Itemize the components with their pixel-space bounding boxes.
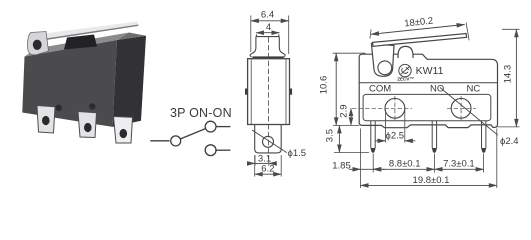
switch body top face [25,33,130,57]
dim 14.3 bottom extension [498,126,520,128]
switch body front face [22,40,117,127]
switch body right side face [113,36,147,127]
dim line 6.2 [255,173,282,175]
dim line 10.6 [335,53,337,125]
center dashed line [268,37,270,159]
NC hole centerlines [447,107,476,109]
svg-text:1.85: 1.85 [332,160,351,171]
svg-text:KW11: KW11 [416,65,444,77]
svg-text:4: 4 [266,22,271,33]
svg-text:8.8±0.1: 8.8±0.1 [389,159,421,170]
lever arm bar [373,34,467,47]
bottom contact lead wire [216,149,230,151]
terminal 3 [114,117,133,144]
svg-text:ϕ2.4: ϕ2.4 [500,136,519,147]
hole in terminal tab [263,136,274,147]
svg-text:ZECV™: ZECV™ [397,77,414,83]
pivot hole [33,40,42,50]
common pole circle [171,136,181,146]
plunger flange base band [252,56,283,58]
svg-text:7.3±0.1: 7.3±0.1 [443,159,475,170]
pivot circle [378,61,392,75]
dim line 3.5 [338,125,340,152]
extension line pin tip level [334,152,369,154]
svg-text:14.3: 14.3 [502,65,513,84]
common lead wire [150,140,169,142]
dim 14.3 top extension [502,28,520,30]
svg-text:NC: NC [467,84,481,95]
dim line 8.8 [373,168,434,170]
dome of plunger [398,46,413,58]
molded dot left on front face [55,104,62,111]
extension line bottom left [333,124,359,126]
lever arm strip [44,22,139,39]
svg-text:ϕ1.5: ϕ1.5 [288,148,307,159]
extension lines 6.4 [250,16,252,53]
pin 1 COM [371,121,375,153]
top contact lead wire [216,126,230,128]
svg-text:3P ON-ON: 3P ON-ON [170,106,232,120]
dim 1.85 outside arrow [349,168,361,170]
logo glyph [401,67,410,75]
left mounting tab [245,89,248,95]
pin 3 NC [482,121,486,153]
terminal 1 [37,106,55,134]
extension lines 3.1 [254,155,256,166]
terminal 2 [78,112,97,138]
molded dot right on front face [89,103,95,109]
extension line left of 18 dim [370,30,371,39]
leader line phi 1.5 [252,130,287,153]
lever pivot tongue [371,44,394,77]
internal horizontal line [359,82,497,84]
extension line top 10.6 [333,52,366,54]
svg-text:COM: COM [369,84,391,95]
dim line phi 2.5 outside arrows [375,140,386,142]
svg-text:19.8±0.1: 19.8±0.1 [413,175,450,186]
dim line 4 [256,32,280,34]
svg-text:6.4: 6.4 [261,10,274,21]
dim line 3.1 with outside arrows [248,162,256,164]
NC hole [451,98,471,118]
dim line 7.3 [435,168,484,170]
dim line 14.3 [515,29,517,127]
switch body top-right facet [117,33,146,41]
COM hole [385,98,405,118]
dim line 2.9 [350,108,352,125]
svg-text:2.9: 2.9 [339,104,350,117]
bottom dims extension lines [360,129,362,189]
brand logo circle [399,64,411,76]
inner wall line right [285,59,287,125]
diagonal leader phi 2.4 [440,88,498,136]
extension line right of 18 dim [466,23,469,41]
dim line 19.8 [361,184,497,186]
pin 2 NO [432,121,436,153]
dim line 6.4 [251,20,289,22]
svg-text:10.6: 10.6 [319,76,330,95]
svg-text:ϕ2.5: ϕ2.5 [386,131,405,142]
switch body outline [359,54,497,128]
svg-text:3.5: 3.5 [324,129,335,142]
top contact circle [205,121,216,132]
lever pivot end piece [28,32,49,55]
extension lines 6.2 [254,155,256,177]
dim phi 2.5 extension lines [385,110,387,143]
moving contact wire [181,129,206,139]
inner wall line left [250,59,252,125]
inner terminal block rect [363,94,491,120]
bottom terminal tab [255,125,282,153]
svg-text:6.2: 6.2 [261,163,274,174]
plunger button on top [64,35,97,50]
bottom contact circle [205,145,216,156]
svg-text:18±0.2: 18±0.2 [404,16,434,30]
COM hole centerlines [352,107,412,109]
right mounting tab [290,89,293,95]
dim line 18±0.2 [371,25,465,35]
plunger button cap [256,34,279,36]
switch body outline [248,59,290,125]
plunger stem sides [250,37,256,57]
